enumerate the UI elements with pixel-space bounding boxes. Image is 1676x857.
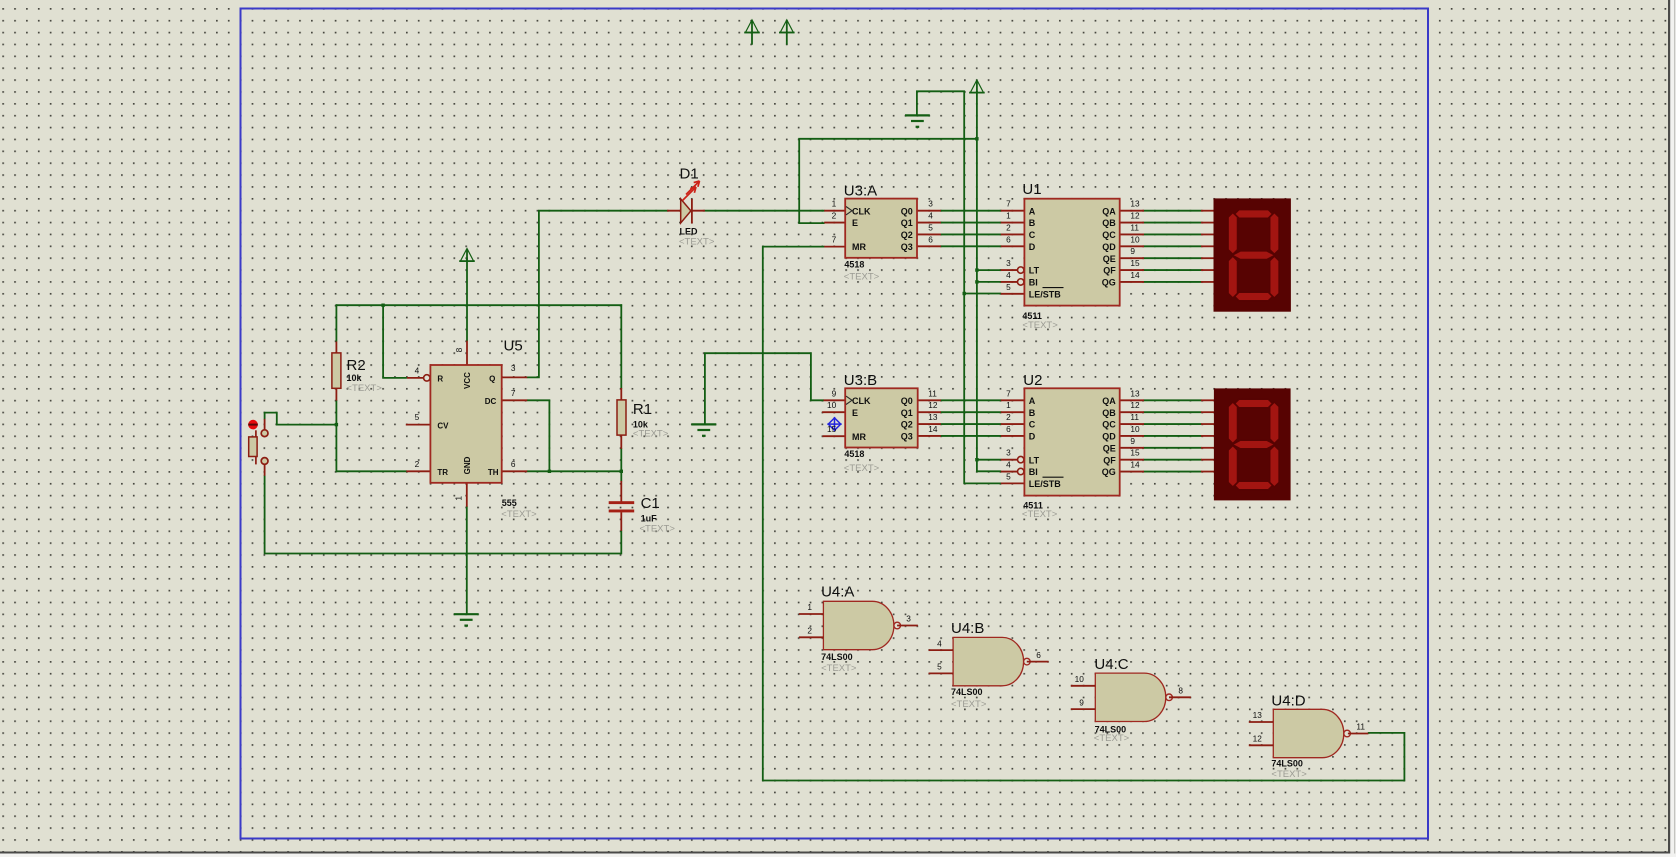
svg-text:Q: Q [489,374,495,383]
svg-text:<TEXT>: <TEXT> [501,509,537,520]
svg-text:U3:B: U3:B [844,372,877,389]
svg-text:4518: 4518 [844,259,864,269]
svg-text:1uF: 1uF [641,514,658,524]
svg-text:LED: LED [680,227,699,237]
svg-text:15: 15 [827,424,837,434]
svg-text:LT: LT [1029,455,1040,465]
svg-text:U4:B: U4:B [951,620,984,637]
svg-text:1: 1 [1006,400,1011,410]
svg-text:6: 6 [511,459,516,469]
svg-text:Q0: Q0 [901,396,913,406]
svg-text:3: 3 [1006,258,1011,268]
svg-text:555: 555 [502,498,517,508]
svg-text:LE/STB: LE/STB [1029,289,1062,299]
svg-text:QF: QF [1103,455,1116,465]
svg-text:8: 8 [454,347,464,352]
svg-text:13: 13 [928,412,938,422]
svg-text:<TEXT>: <TEXT> [951,699,987,710]
svg-text:U4:A: U4:A [821,584,854,601]
svg-text:R2: R2 [347,357,366,374]
svg-text:1: 1 [453,496,463,501]
svg-text:5: 5 [415,412,420,422]
svg-text:7: 7 [1006,388,1011,398]
svg-text:4: 4 [1006,460,1011,470]
svg-text:13: 13 [1130,199,1140,209]
svg-text:9: 9 [1130,246,1135,256]
svg-text:11: 11 [1130,412,1139,422]
svg-text:E: E [852,218,858,228]
svg-text:74LS00: 74LS00 [821,652,853,662]
svg-text:3: 3 [511,363,516,373]
svg-text:C: C [1029,230,1036,240]
svg-text:74LS00: 74LS00 [951,687,983,697]
svg-text:<TEXT>: <TEXT> [844,271,880,282]
svg-text:1: 1 [832,199,837,209]
svg-text:<TEXT>: <TEXT> [1094,733,1130,744]
svg-text:R1: R1 [633,401,652,418]
svg-text:13: 13 [1130,388,1140,398]
svg-text:U4:D: U4:D [1271,693,1305,710]
svg-text:10: 10 [1075,674,1085,684]
svg-text:<TEXT>: <TEXT> [1271,769,1307,780]
svg-text:QA: QA [1102,206,1116,216]
svg-text:D1: D1 [680,165,699,182]
svg-text:C: C [1029,420,1036,430]
svg-text:9: 9 [1079,697,1084,707]
svg-text:6: 6 [1006,234,1011,244]
svg-text:Q2: Q2 [901,420,913,430]
svg-text:U3:A: U3:A [844,182,877,199]
svg-text:14: 14 [1130,460,1140,470]
svg-text:B: B [1029,408,1036,418]
svg-text:12: 12 [1130,211,1140,221]
svg-text:LT: LT [1029,266,1040,276]
svg-text:4: 4 [415,365,420,375]
svg-text:Q3: Q3 [901,432,913,442]
svg-text:MR: MR [852,432,866,442]
svg-text:BI: BI [1029,278,1038,288]
svg-text:QC: QC [1102,230,1116,240]
svg-text:4: 4 [1006,270,1011,280]
svg-text:QD: QD [1102,242,1116,252]
svg-text:12: 12 [928,400,938,410]
svg-text:1: 1 [807,602,812,612]
svg-text:R: R [437,374,443,383]
svg-text:15: 15 [1130,258,1140,268]
svg-text:6: 6 [1036,650,1041,660]
svg-text:CV: CV [437,422,449,431]
svg-text:11: 11 [928,388,937,398]
svg-text:3: 3 [906,614,911,624]
svg-text:<TEXT>: <TEXT> [821,663,857,674]
svg-text:DC: DC [485,397,497,406]
svg-text:5: 5 [1006,471,1011,481]
svg-text:5: 5 [928,222,933,232]
svg-text:6: 6 [928,234,933,244]
svg-text:VCC: VCC [463,372,472,389]
svg-text:QA: QA [1102,396,1116,406]
svg-text:7: 7 [511,388,516,398]
svg-text:B: B [1029,218,1036,228]
svg-text:2: 2 [1006,412,1011,422]
svg-text:14: 14 [1130,270,1140,280]
svg-text:2: 2 [1006,222,1011,232]
svg-text:10: 10 [827,400,837,410]
svg-text:11: 11 [1356,722,1365,732]
svg-text:7: 7 [1006,199,1011,209]
svg-text:10k: 10k [347,373,363,383]
svg-text:12: 12 [1130,400,1140,410]
svg-text:QD: QD [1102,432,1116,442]
svg-text:1: 1 [1006,211,1011,221]
svg-text:A: A [1029,396,1036,406]
svg-text:U2: U2 [1023,372,1042,389]
svg-text:5: 5 [1006,282,1011,292]
svg-text:14: 14 [928,424,938,434]
svg-text:CLK: CLK [852,206,871,216]
svg-text:<TEXT>: <TEXT> [679,237,715,248]
svg-text:15: 15 [1130,448,1140,458]
svg-text:QB: QB [1102,408,1116,418]
svg-text:4: 4 [937,638,942,648]
svg-text:U4:C: U4:C [1094,656,1128,673]
svg-text:QC: QC [1102,420,1116,430]
svg-text:8: 8 [1178,686,1183,696]
svg-text:A: A [1029,206,1036,216]
svg-text:<TEXT>: <TEXT> [1022,320,1058,331]
svg-text:D: D [1029,242,1036,252]
svg-text:BI: BI [1029,467,1038,477]
svg-text:Q3: Q3 [901,242,913,252]
svg-text:C1: C1 [641,495,660,512]
svg-text:TH: TH [488,468,499,477]
svg-text:2: 2 [807,626,812,636]
svg-text:QB: QB [1102,218,1116,228]
svg-text:D: D [1029,432,1036,442]
svg-text:2: 2 [415,459,420,469]
svg-text:QF: QF [1103,266,1116,276]
svg-text:9: 9 [832,388,837,398]
svg-text:5: 5 [937,662,942,672]
svg-text:QE: QE [1103,443,1116,453]
svg-text:Q0: Q0 [901,206,913,216]
svg-text:Q1: Q1 [901,218,913,228]
svg-text:3: 3 [1006,448,1011,458]
svg-text:QG: QG [1102,467,1116,477]
svg-text:E: E [852,408,858,418]
svg-text:9: 9 [1130,436,1135,446]
svg-text:10: 10 [1130,424,1140,434]
svg-text:Q2: Q2 [901,230,913,240]
svg-text:LE/STB: LE/STB [1029,479,1062,489]
svg-text:CLK: CLK [852,396,871,406]
svg-text:4: 4 [928,211,933,221]
svg-text:4518: 4518 [844,449,864,459]
svg-text:<TEXT>: <TEXT> [347,383,383,394]
svg-text:13: 13 [1253,710,1263,720]
svg-text:6: 6 [1006,424,1011,434]
svg-text:<TEXT>: <TEXT> [1022,509,1058,520]
svg-text:2: 2 [832,211,837,221]
svg-text:<TEXT>: <TEXT> [844,463,880,474]
svg-text:11: 11 [1130,222,1139,232]
svg-text:QE: QE [1103,254,1116,264]
svg-text:<TEXT>: <TEXT> [640,524,676,535]
svg-text:3: 3 [928,199,933,209]
svg-text:<TEXT>: <TEXT> [633,428,669,439]
svg-text:7: 7 [832,235,837,245]
svg-text:74LS00: 74LS00 [1271,758,1303,768]
svg-text:QG: QG [1102,278,1116,288]
svg-text:U1: U1 [1022,181,1041,198]
svg-text:12: 12 [1253,734,1263,744]
svg-text:U5: U5 [504,338,523,355]
svg-text:GND: GND [463,456,472,474]
svg-text:MR: MR [852,242,866,252]
svg-text:10: 10 [1130,234,1140,244]
svg-text:Q1: Q1 [901,408,913,418]
svg-text:TR: TR [437,468,448,477]
